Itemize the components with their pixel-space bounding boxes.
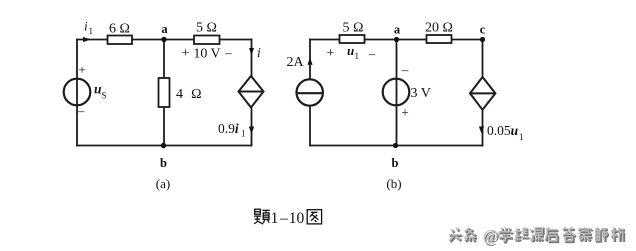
svg-text:4 Ω: 4 Ω (176, 87, 202, 102)
svg-text:10: 10 (289, 210, 305, 227)
svg-text:c: c (480, 23, 486, 37)
svg-text:1: 1 (271, 210, 279, 227)
svg-text:b: b (160, 156, 167, 170)
svg-text:3 V: 3 V (411, 86, 431, 101)
svg-text:b: b (392, 156, 399, 170)
svg-text:S: S (102, 91, 107, 101)
svg-text:10 V: 10 V (193, 47, 220, 62)
svg-text:(b): (b) (386, 176, 401, 191)
svg-text:2A: 2A (287, 55, 305, 70)
svg-text:20 Ω: 20 Ω (425, 21, 453, 36)
svg-text:–: – (224, 45, 232, 60)
svg-text:–: – (279, 210, 288, 227)
svg-text:+: + (401, 105, 408, 120)
svg-text:1: 1 (355, 51, 360, 61)
svg-text:5 Ω: 5 Ω (196, 21, 217, 36)
svg-text:1: 1 (241, 129, 246, 139)
svg-text:0.9i: 0.9i (218, 121, 239, 136)
svg-text:@: @ (483, 226, 499, 245)
svg-text:0.05u: 0.05u (487, 123, 519, 138)
svg-text:a: a (394, 23, 401, 37)
svg-text:+: + (182, 46, 190, 61)
svg-text:5 Ω: 5 Ω (343, 21, 364, 36)
svg-text:6 Ω: 6 Ω (109, 22, 130, 37)
svg-text:i: i (257, 45, 261, 60)
svg-text:u: u (347, 43, 354, 58)
svg-text:1: 1 (89, 26, 94, 36)
svg-text:–: – (368, 46, 376, 61)
svg-text:1: 1 (519, 132, 524, 142)
svg-text:–: – (77, 103, 85, 118)
svg-text:i: i (84, 19, 88, 34)
svg-text:–: – (401, 62, 409, 77)
svg-text:a: a (161, 22, 168, 36)
svg-text:+: + (327, 46, 335, 61)
svg-text:+: + (78, 62, 85, 77)
svg-text:(a): (a) (156, 176, 170, 191)
